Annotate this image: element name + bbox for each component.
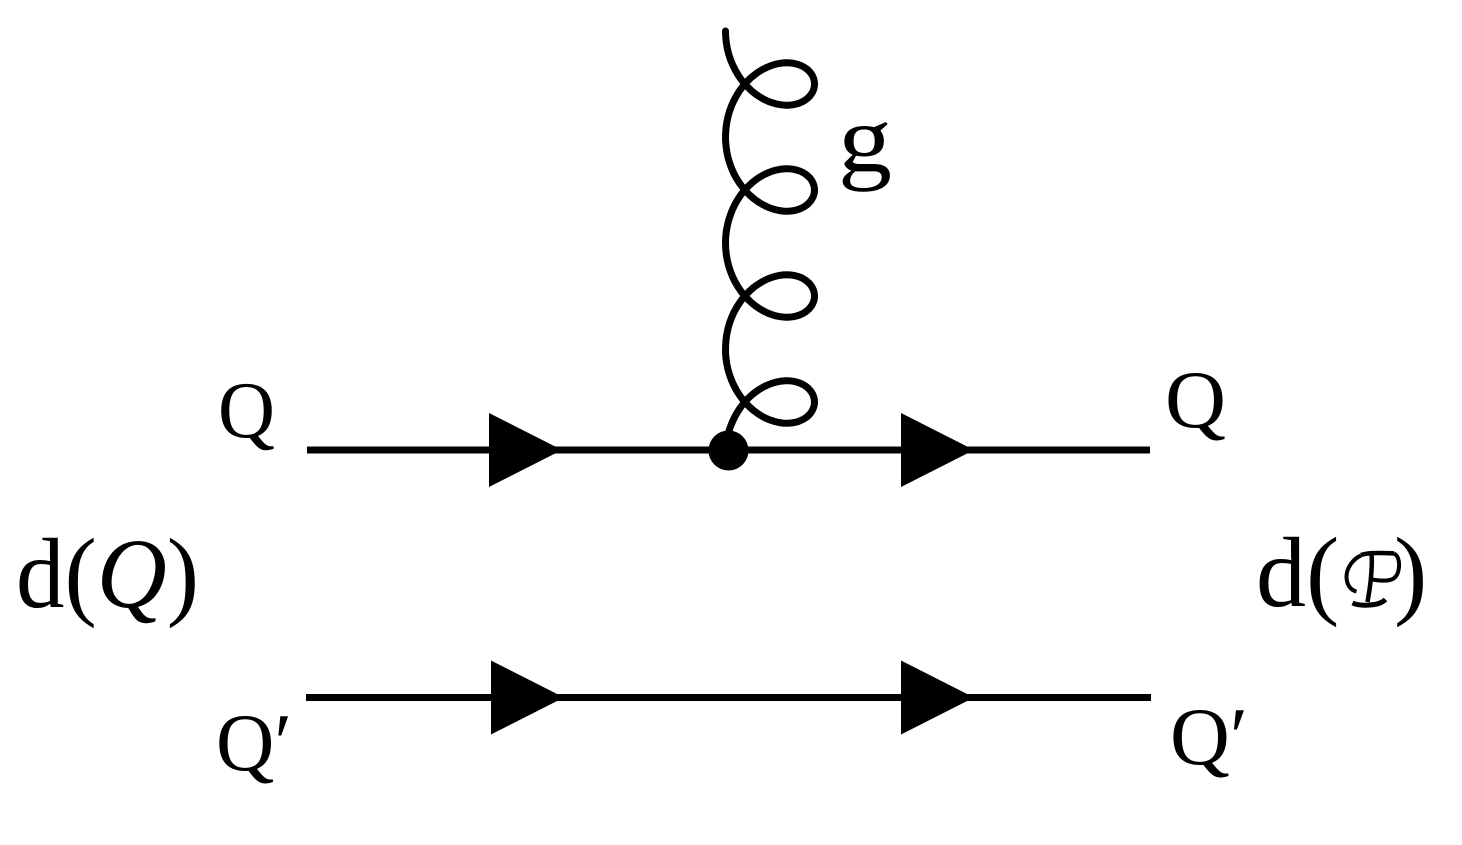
gluon curly line g xyxy=(726,31,815,437)
arrow on top line (left) xyxy=(489,413,562,487)
svg-text:d(: d( xyxy=(1256,517,1339,628)
svg-text:Q: Q xyxy=(218,367,275,455)
svg-text:g: g xyxy=(838,86,892,192)
script P glyph xyxy=(1347,553,1400,605)
arrow on bottom line (left) xyxy=(491,661,564,735)
arrow on bottom line (right) xyxy=(901,661,974,735)
arrow on top line (right) xyxy=(901,413,974,487)
svg-text:Q′: Q′ xyxy=(216,697,292,788)
vertex dot (quark-gluon vertex) xyxy=(709,431,749,471)
wire: quark line Q' (bottom) xyxy=(306,694,1151,701)
svg-text:Q: Q xyxy=(1165,354,1226,445)
svg-text:d(Q): d(Q) xyxy=(16,518,199,629)
svg-text:): ) xyxy=(1394,517,1427,628)
wire: incoming quark line Q (top) xyxy=(307,447,1150,454)
svg-text:Q′: Q′ xyxy=(1170,691,1248,782)
